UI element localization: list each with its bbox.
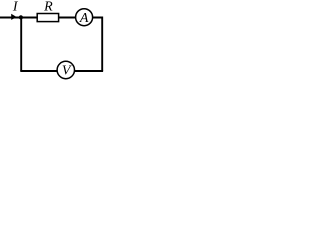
current arrow	[11, 14, 17, 20]
svg-text:I: I	[12, 0, 19, 15]
wire	[0, 17, 38, 19]
wire	[20, 70, 57, 72]
wire	[93, 18, 103, 72]
resistor R	[37, 14, 58, 22]
node junction	[19, 15, 23, 19]
svg-text:A: A	[79, 11, 89, 26]
wire	[59, 17, 76, 19]
wire	[74, 70, 103, 72]
svg-text:V: V	[62, 64, 72, 79]
svg-text:R: R	[43, 0, 53, 15]
voltmeter V	[57, 61, 74, 78]
ammeter A	[76, 9, 93, 26]
wire	[20, 18, 22, 72]
